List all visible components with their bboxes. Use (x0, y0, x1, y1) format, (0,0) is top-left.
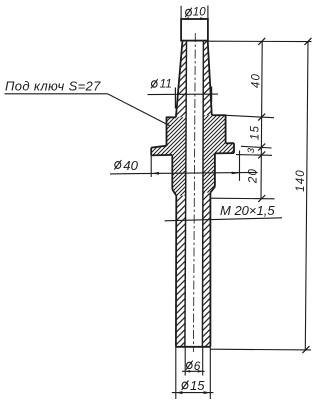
flange right side (233, 143, 235, 153)
tick 140 bottom (303, 346, 310, 353)
dim 3 upper line (241, 146, 272, 148)
hatched section right hex flange thread wall (203, 115, 234, 192)
tick 15 top (258, 114, 265, 121)
label underline Pod kluch (5, 93, 108, 95)
svg-text:M 20×1,5: M 20×1,5 (220, 203, 275, 218)
dim phi15 arrow right (204, 391, 211, 394)
svg-text:15: 15 (249, 125, 261, 140)
dim phi11 line (148, 93, 219, 96)
svg-text:20: 20 (248, 168, 260, 184)
svg-text:140: 140 (295, 169, 307, 192)
flange bottom left edge (151, 154, 172, 157)
tube right side (209, 193, 211, 347)
label phi15 symbol (182, 381, 189, 391)
tube left side (175, 196, 177, 347)
svg-text:40: 40 (251, 73, 263, 88)
tick 3 top (258, 144, 265, 151)
hex top extension line to chain (226, 115, 274, 117)
thread chamfer right (210, 187, 215, 193)
dim phi40 line (110, 172, 258, 174)
tick 20 bottom (258, 195, 265, 202)
dim phi6 line (182, 370, 205, 372)
svg-text:11: 11 (160, 77, 172, 91)
svg-text:10: 10 (193, 6, 206, 18)
leader Pod kluch to hex (108, 94, 170, 126)
dim phi15 line (172, 392, 214, 394)
svg-text:15: 15 (190, 378, 205, 393)
tick at chain top outer (305, 38, 312, 45)
flange top right edge (226, 142, 234, 144)
dim phi10 arrow left (181, 17, 189, 20)
hex right side (225, 115, 227, 143)
svg-text:40: 40 (123, 158, 138, 173)
hatched section left hex flange thread wall (151, 117, 186, 195)
outer chain line (305, 41, 308, 349)
dim phi15 extension left (175, 347, 177, 399)
taper left outer line (176, 41, 183, 118)
dim phi11 tick left (174, 88, 176, 109)
dim phi10 arrow right (200, 17, 208, 20)
thread end extension line to chain (210, 197, 275, 200)
label phi11 symbol (151, 79, 158, 88)
dim phi10 extension line right (207, 6, 209, 20)
dim phi40 extension left (150, 155, 152, 177)
dim phi40 arrow left (151, 172, 159, 175)
flange top left edge (151, 146, 166, 148)
shelf line M20 (165, 218, 283, 221)
bore left line (185, 41, 187, 347)
hatched section right tube wall (202, 193, 210, 347)
thread section left wall (171, 155, 173, 190)
hex left side (166, 117, 168, 146)
dim phi40 arrow right (232, 172, 240, 175)
dim phi6 extension left (184, 347, 186, 376)
label phi10 symbol (185, 8, 192, 17)
svg-text:Под ключ S=27: Под ключ S=27 (5, 79, 101, 94)
dim phi10 extension line left (180, 6, 182, 19)
dim phi6 extension right (202, 347, 204, 376)
hatched section right taper wall (203, 41, 212, 116)
thread section right wall (214, 153, 216, 186)
flange bottom right edge (215, 152, 234, 154)
tick 3 bottom (258, 151, 265, 158)
bottom extension line to outer chain (211, 348, 312, 351)
hatched section left tube wall (176, 196, 186, 347)
hatched section left taper wall (176, 41, 187, 118)
centre line (193, 33, 195, 352)
hex top right edge (212, 114, 226, 116)
hex top left edge (166, 116, 176, 118)
taper right outer line (208, 41, 212, 116)
svg-text:3: 3 (246, 147, 257, 153)
cap rectangle top (181, 19, 208, 41)
extension line from cap to chains (208, 40, 312, 42)
flange left side (150, 148, 152, 156)
dim phi40 extension right (239, 151, 241, 181)
inner chain line (261, 41, 262, 198)
tick at chain top inner (258, 38, 265, 45)
thread chamfer left (172, 189, 176, 195)
dim phi6 arrow right (198, 370, 203, 373)
label phi40 symbol (114, 160, 121, 170)
flange bottom extension line to chain (236, 154, 272, 157)
label phi6 symbol (186, 361, 193, 370)
dim phi15 arrow left (176, 391, 183, 394)
tube bottom edge (176, 346, 211, 348)
dim phi6 arrow left (185, 370, 190, 373)
dim phi11 tick right (211, 87, 213, 103)
bore right line (202, 41, 203, 347)
dim phi15 extension right (209, 347, 211, 399)
